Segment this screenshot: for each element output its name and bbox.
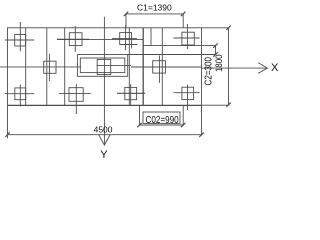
grid vertical C: [64, 28, 66, 105]
bottom edge extension to 1800 dim line: [202, 104, 230, 106]
small step line under square 3: [120, 44, 138, 46]
svg-text:Y: Y: [100, 149, 108, 161]
foundation outline: [8, 28, 202, 105]
Y axis arrow: [99, 134, 111, 145]
top row square 2: [69, 33, 82, 46]
bottom row square 4: [182, 87, 194, 99]
middle right square: [153, 61, 166, 73]
pedestal top line extended to C2 dim (bottom extension of C2): [128, 54, 216, 56]
middle left square: [44, 61, 56, 73]
top row square 1: [15, 35, 26, 47]
square3 crosshair: [125, 25, 127, 50]
grid vertical stub between squares 3 and 4: [150, 28, 152, 46]
svg-text:C02=990: C02=990: [146, 115, 180, 126]
grid vertical D: [128, 28, 130, 105]
pedestal outer rect: [77, 55, 127, 77]
C1 right extension: [182, 14, 184, 28]
middle axis segment through pedestal: [97, 64, 132, 66]
top row square 4: [182, 32, 194, 45]
X axis line: [202, 67, 268, 69]
top row square 3: [120, 33, 132, 45]
4500 dimension line: [8, 134, 202, 136]
bottom row square 1: [15, 88, 26, 100]
svg-text:4500: 4500: [94, 125, 113, 135]
centerline vertical (machine axis): [103, 17, 105, 106]
grid vertical E: [142, 28, 144, 105]
middle left crosshair vertical: [48, 54, 50, 81]
bottom edge reinforcing line: [8, 105, 202, 107]
C02 label box: [143, 112, 180, 123]
4500 arrows: [5, 132, 9, 137]
square1 crosshair: [19, 22, 21, 51]
4500 right extension: [201, 105, 203, 135]
C02 right extension: [182, 105, 184, 125]
middle axis segment right: [131, 66, 201, 68]
b-square2 crosshair: [75, 84, 77, 114]
X axis arrow: [258, 63, 267, 74]
C02 dimension line: [140, 124, 184, 126]
C1 dimension line: [126, 13, 183, 15]
square2 crosshair: [74, 26, 76, 52]
grid vertical A: [25, 28, 27, 105]
C1 left extension: [125, 14, 127, 28]
grid vertical B: [46, 28, 48, 105]
top edge extension to 1800 dim line: [202, 27, 229, 29]
1800 arrows: [226, 26, 230, 30]
bottom row square 3: [125, 87, 137, 99]
pedestal central square: [97, 59, 111, 74]
C2 arrows: [213, 43, 217, 47]
bottom row square 2: [69, 88, 83, 102]
C02 arrows: [137, 123, 141, 127]
svg-text:X: X: [271, 62, 279, 74]
middle axis segment left: [0, 66, 81, 68]
svg-text:1800: 1800: [214, 54, 224, 72]
Y axis line: [103, 105, 105, 145]
pedestal inner rect: [80, 58, 125, 73]
1800 dimension line: [228, 28, 230, 105]
top grid horizontal through squares 2-3: [57, 39, 144, 41]
C02 left extension: [139, 105, 141, 125]
small step stub: [131, 45, 133, 49]
grid vertical F: [161, 28, 163, 105]
square2 crosshair horizontal (overlaps grid line): [57, 38, 89, 40]
4500 left extension: [7, 105, 9, 138]
middle right crosshair vertical: [158, 56, 160, 83]
svg-text:C2=300: C2=300: [203, 57, 215, 86]
b-square4 crosshair: [187, 85, 189, 111]
b-square3 crosshair: [130, 84, 132, 105]
C1 arrows: [124, 12, 128, 16]
b-square1 crosshair: [19, 85, 21, 107]
svg-text:C1=1390: C1=1390: [137, 2, 172, 12]
square4 crosshair: [186, 24, 188, 49]
C2 dimension line: [215, 46, 217, 55]
inner horizontal right portion / C2 top extension: [143, 45, 215, 47]
